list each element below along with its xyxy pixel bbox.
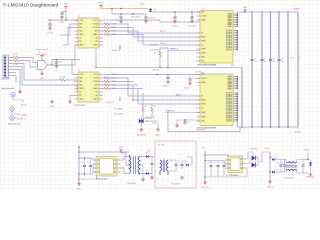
wire xyxy=(120,157,129,161)
wire xyxy=(52,45,78,65)
wire xyxy=(152,123,158,128)
svg-text:SOURCE: SOURCE xyxy=(226,115,232,117)
svg-text:C?: C? xyxy=(171,161,173,163)
wire xyxy=(160,48,168,67)
net label xyxy=(160,30,166,33)
svg-text:C? 0.1uF: C? 0.1uF xyxy=(149,18,156,20)
svg-text:C? 0.1uF: C? 0.1uF xyxy=(47,33,54,35)
red text xyxy=(196,129,206,131)
red text xyxy=(153,69,160,71)
resistor RN2D xyxy=(103,87,144,90)
wire (rail) xyxy=(204,151,205,182)
pins U5 right drain group xyxy=(227,75,237,90)
wire xyxy=(12,76,17,84)
wire xyxy=(186,157,192,165)
ground xyxy=(155,128,161,137)
sheet background xyxy=(0,0,320,191)
wire xyxy=(177,119,200,120)
wire xyxy=(148,157,152,174)
wire xyxy=(120,168,129,174)
wire (orange net) xyxy=(101,8,148,10)
svg-text:750313638: 750313638 xyxy=(127,183,136,185)
wire (drain bus) xyxy=(237,12,238,27)
svg-text:40.9k 250k: 40.9k 250k xyxy=(114,114,123,116)
red text RN_DNI_A xyxy=(132,16,142,19)
zener diode D1 xyxy=(149,9,156,12)
svg-text:RN_NC_A: RN_NC_A xyxy=(112,49,121,52)
svg-text:C?: C? xyxy=(264,59,266,61)
svg-text:VDD: VDD xyxy=(243,7,248,9)
GaN power IC U3 xyxy=(197,9,233,67)
svg-text:0.1uF: 0.1uF xyxy=(59,62,63,64)
wire xyxy=(121,152,129,165)
svg-text:VNEG: VNEG xyxy=(22,114,27,116)
transformer T3 xyxy=(283,162,297,180)
capacitor C8 xyxy=(260,58,267,63)
svg-text:RN_GND_B: RN_GND_B xyxy=(137,135,146,137)
svg-text:U? TPS7A4001: U? TPS7A4001 xyxy=(226,174,238,177)
power flag VDD xyxy=(64,4,69,9)
schottky diode D3 xyxy=(146,153,148,158)
svg-text:SPARE_B: SPARE_B xyxy=(166,109,175,112)
ground PGND xyxy=(295,127,301,134)
wire xyxy=(258,152,270,162)
pins J1 xyxy=(9,58,12,76)
svg-text:VCC2: VCC2 xyxy=(94,74,98,76)
svg-text:VNEG: VNEG xyxy=(201,53,206,55)
ground xyxy=(50,100,54,108)
capacitor C7 xyxy=(250,58,257,63)
port symbol P1 xyxy=(11,92,28,106)
wire xyxy=(297,160,303,164)
svg-text:RN_NC_B: RN_NC_B xyxy=(106,102,115,104)
pins U4 left xyxy=(75,75,79,100)
svg-text:GND2: GND2 xyxy=(93,99,98,101)
capacitor C6 xyxy=(189,12,196,28)
wire xyxy=(168,113,240,132)
wire (vertical) xyxy=(297,12,299,127)
pins U6 left xyxy=(93,160,96,172)
resistor R6 xyxy=(142,106,147,113)
svg-text:SOURCE: SOURCE xyxy=(226,110,232,112)
resistor RN1C xyxy=(103,30,201,41)
svg-text:EN1: EN1 xyxy=(79,31,82,33)
svg-text:C?: C? xyxy=(55,70,57,72)
svg-text:C?: C? xyxy=(208,162,210,164)
svg-text:SOURCE: SOURCE xyxy=(226,100,232,102)
capacitor C1 xyxy=(60,11,66,15)
svg-text:A_SRC_1: A_SRC_1 xyxy=(18,117,26,120)
resistor RN1A xyxy=(103,23,201,33)
power flag VDD3 xyxy=(243,7,248,12)
wire xyxy=(50,59,81,66)
wire (rail) xyxy=(269,152,270,180)
resistor R2 xyxy=(154,48,161,67)
capacitor C10 xyxy=(55,60,63,65)
wire xyxy=(205,155,228,158)
LDO U7 xyxy=(226,156,243,177)
svg-text:C?: C? xyxy=(178,161,180,163)
svg-text:GND1: GND1 xyxy=(79,34,84,36)
red text +5V xyxy=(202,148,206,150)
capacitor C13 xyxy=(183,120,189,124)
svg-text:C? C?: C? C? xyxy=(290,58,295,60)
wire (source bus) xyxy=(237,30,238,51)
pins U5 left xyxy=(197,75,201,122)
net label DRAIN xyxy=(293,8,300,11)
wire xyxy=(128,78,200,96)
wire xyxy=(236,121,238,127)
wire xyxy=(151,11,201,12)
svg-text:SOURCE: SOURCE xyxy=(226,42,232,44)
resistor RN2B xyxy=(103,80,134,83)
net label SPARE xyxy=(168,48,200,51)
svg-text:U?: U? xyxy=(38,52,40,54)
svg-text:RN_A_1: RN_A_1 xyxy=(21,103,27,106)
svg-text:C?: C? xyxy=(221,162,223,164)
svg-text:TI LMG3410 Daughtercard: TI LMG3410 Daughtercard xyxy=(3,3,59,8)
svg-text:SOURCE: SOURCE xyxy=(226,48,232,50)
wire xyxy=(307,153,308,161)
svg-text:INB_B: INB_B xyxy=(176,94,182,96)
svg-text:C? 0.1uF: C? 0.1uF xyxy=(189,26,196,28)
svg-text:LMG3410R070RWHT: LMG3410R070RWHT xyxy=(197,65,217,67)
resistor R3 xyxy=(13,54,19,59)
wire xyxy=(165,112,200,114)
wire (U5 right bus) xyxy=(237,76,238,90)
ground xyxy=(137,128,146,137)
port symbol P3 xyxy=(10,116,25,121)
wire xyxy=(297,168,303,173)
svg-text:VDD_B: VDD_B xyxy=(184,88,191,90)
svg-text:+6V_A: +6V_A xyxy=(264,147,270,150)
wire (vertical) xyxy=(287,12,289,127)
capacitor C9 xyxy=(269,58,276,63)
ground xyxy=(201,181,209,189)
net label xyxy=(176,94,182,96)
wire (U5 source bus) xyxy=(237,92,238,121)
svg-text:R? 0Ω: R? 0Ω xyxy=(13,64,18,66)
wire xyxy=(303,160,308,174)
svg-text:C?: C? xyxy=(299,58,301,60)
net label xyxy=(106,102,115,104)
svg-text:0.1u: 0.1u xyxy=(254,61,257,63)
svg-text:R?: R? xyxy=(154,53,156,55)
svg-text:C?: C? xyxy=(277,163,279,165)
pin U2 gnd xyxy=(41,70,43,73)
wire xyxy=(12,70,21,91)
net label xyxy=(290,58,295,60)
svg-text:C?: C? xyxy=(254,59,256,61)
svg-text:0.1u: 0.1u xyxy=(273,61,276,63)
svg-text:SOURCE: SOURCE xyxy=(226,46,232,48)
net label SPARE_B xyxy=(166,109,175,112)
svg-text:+12V_A: +12V_A xyxy=(303,149,310,152)
capacitor C3 xyxy=(112,13,146,21)
wire xyxy=(168,160,176,163)
ground xyxy=(68,100,72,103)
svg-text:SOURCE: SOURCE xyxy=(226,117,232,119)
svg-text:SOURCE: SOURCE xyxy=(226,98,232,100)
wire xyxy=(70,96,75,101)
svg-text:D?: D? xyxy=(146,170,148,172)
pins U3 right source group xyxy=(226,30,237,51)
red text xyxy=(172,184,181,186)
ground xyxy=(267,180,273,189)
capacitor C17 xyxy=(171,161,178,168)
wire xyxy=(79,157,93,159)
ground xyxy=(175,120,179,127)
ground xyxy=(119,20,123,23)
pins U3 right drain group xyxy=(227,13,237,28)
red text +5V_ISO xyxy=(157,145,165,147)
svg-text:EN2: EN2 xyxy=(95,31,98,33)
pins U4 right xyxy=(99,75,103,100)
ground xyxy=(60,16,65,24)
svg-text:SOURCE: SOURCE xyxy=(226,34,232,36)
svg-text:EN1: EN1 xyxy=(79,85,82,87)
svg-text:SOURCE: SOURCE xyxy=(226,93,232,95)
wire xyxy=(143,113,152,118)
wire xyxy=(79,172,97,179)
svg-text:SOURCE: SOURCE xyxy=(226,32,232,34)
svg-text:OUTB: OUTB xyxy=(93,81,97,83)
svg-text:U?: U? xyxy=(202,9,204,11)
pin U2 vcc xyxy=(41,58,43,61)
svg-text:VCC2: VCC2 xyxy=(94,20,98,22)
wire xyxy=(252,152,254,156)
svg-text:VNEG: VNEG xyxy=(201,117,206,119)
svg-text:TEMP: TEMP xyxy=(201,49,205,51)
red text xyxy=(264,147,270,150)
wire xyxy=(12,64,61,81)
svg-text:7.4k 1MHz: 7.4k 1MHz xyxy=(114,109,123,111)
svg-text:SN6501DBVR: SN6501DBVR xyxy=(96,179,108,181)
wire (vertical) xyxy=(278,12,280,127)
pins U7 right xyxy=(243,159,246,168)
svg-text:SOURCE: SOURCE xyxy=(226,96,232,98)
resistor R5 xyxy=(60,77,66,81)
svg-text:RT_DNI_B: RT_DNI_B xyxy=(172,184,181,186)
capacitor C? 218 xyxy=(215,161,220,178)
svg-text:PGND: PGND xyxy=(295,132,301,134)
wire xyxy=(12,72,17,74)
net label xyxy=(299,58,301,60)
resistor R7 xyxy=(151,104,156,113)
svg-text:GND2: GND2 xyxy=(93,88,98,90)
wire xyxy=(63,28,75,46)
annotation xyxy=(36,48,48,51)
wire xyxy=(237,11,298,12)
DNI region box xyxy=(155,141,196,188)
pins U7 left xyxy=(225,160,228,168)
svg-text:R? 10k: R? 10k xyxy=(60,77,66,79)
wire xyxy=(246,158,251,164)
capacitor C23 xyxy=(299,163,305,168)
annotation xyxy=(114,109,123,116)
digital isolator U1 xyxy=(78,16,99,48)
svg-text:Input Connector: Input Connector xyxy=(2,87,15,90)
net label xyxy=(160,42,166,45)
svg-text:SOURCE: SOURCE xyxy=(226,105,232,107)
wire xyxy=(255,158,258,165)
red text xyxy=(250,149,258,151)
wire xyxy=(93,164,96,174)
transformer T2 xyxy=(157,160,168,182)
svg-text:EN2: EN2 xyxy=(95,85,98,87)
pins U1 left xyxy=(75,21,79,46)
capacitor C5 xyxy=(172,12,178,28)
svg-text:+5V_ISO: +5V_ISO xyxy=(157,145,165,147)
svg-text:9k 500Hz: 9k 500Hz xyxy=(150,45,158,47)
pins U1 right xyxy=(99,21,103,46)
svg-text:U?: U? xyxy=(202,72,204,74)
resistor RN2C xyxy=(103,84,139,87)
wire (left rail) xyxy=(78,147,79,182)
svg-text:BCS-108-L: BCS-108-L xyxy=(2,79,11,81)
wire xyxy=(12,58,38,63)
schottky diode D4 xyxy=(146,170,148,175)
svg-text:VNEG: VNEG xyxy=(201,82,206,84)
svg-text:C?: C? xyxy=(188,122,190,124)
resistor R4 xyxy=(13,59,19,65)
wire xyxy=(225,161,228,165)
wire xyxy=(152,156,155,158)
capacitor C15 xyxy=(84,157,92,174)
capacitor C? 211 xyxy=(208,161,213,178)
ground xyxy=(40,72,44,80)
power flag VDD4 xyxy=(119,147,124,152)
red text xyxy=(196,70,202,73)
svg-text:VNEG: VNEG xyxy=(201,20,206,22)
red text xyxy=(306,176,314,179)
wire xyxy=(140,156,146,158)
svg-text:SOURCE: SOURCE xyxy=(226,41,232,43)
svg-text:9.9k 250Hz: 9.9k 250Hz xyxy=(150,50,159,52)
wire xyxy=(168,167,176,171)
pins U3 left xyxy=(197,12,201,61)
zener diode D8 xyxy=(309,160,312,174)
net label xyxy=(140,3,145,6)
capacitor C18 xyxy=(178,161,184,170)
wire xyxy=(93,158,96,160)
annotation xyxy=(2,87,15,90)
GaN power IC U5 xyxy=(197,72,233,129)
svg-text:VDD_ISO: VDD_ISO xyxy=(250,149,258,151)
svg-text:D?: D? xyxy=(154,10,156,12)
svg-text:VNEG_A: VNEG_A xyxy=(306,176,314,179)
svg-text:INB: INB xyxy=(79,27,82,29)
wire xyxy=(79,173,93,175)
svg-text:SOURCE: SOURCE xyxy=(226,101,232,103)
svg-text:U?: U? xyxy=(78,16,80,18)
svg-text:SOURCE: SOURCE xyxy=(226,119,232,121)
wire xyxy=(281,160,286,173)
resistor RN1B xyxy=(103,26,201,37)
svg-text:VCC1: VCC1 xyxy=(79,74,83,76)
annotation xyxy=(150,45,159,52)
svg-text:SOURCE: SOURCE xyxy=(226,121,232,123)
wire xyxy=(65,9,67,21)
wire xyxy=(238,126,298,127)
svg-text:RN_DNI: RN_DNI xyxy=(153,69,160,71)
svg-text:INB: INB xyxy=(79,81,82,83)
svg-text:TEMP: TEMP xyxy=(201,112,205,114)
svg-text:GND_ISO: GND_ISO xyxy=(201,187,209,189)
schottky diode D6 xyxy=(270,157,278,161)
transformer driver U6 xyxy=(96,157,117,181)
capacitor C? 224 xyxy=(221,161,226,178)
wire xyxy=(205,160,224,162)
resistor RN2A xyxy=(103,77,129,80)
power flag VCC gate xyxy=(40,55,44,57)
title text xyxy=(3,3,59,8)
wire xyxy=(246,168,248,177)
svg-text:SOURCE: SOURCE xyxy=(226,114,232,116)
wire xyxy=(112,44,121,76)
svg-text:SOURCE: SOURCE xyxy=(226,108,232,110)
svg-text:C?: C? xyxy=(87,162,89,164)
svg-text:do not install R?: do not install R? xyxy=(36,48,48,51)
wire xyxy=(103,20,200,22)
capacitor C14 xyxy=(81,158,86,174)
svg-text:C?: C? xyxy=(273,59,275,61)
svg-text:R? 0Ω: R? 0Ω xyxy=(13,54,18,56)
wire xyxy=(111,9,113,15)
svg-text:VDD2: VDD2 xyxy=(98,3,103,5)
svg-text:RN_DNI_A: RN_DNI_A xyxy=(132,16,142,19)
svg-text:SOURCE: SOURCE xyxy=(226,30,232,32)
port symbol P2 xyxy=(10,107,28,117)
svg-text:SOURCE: SOURCE xyxy=(226,94,232,96)
capacitor C16 xyxy=(147,151,154,167)
wire xyxy=(78,146,129,152)
wire xyxy=(60,24,75,35)
ground xyxy=(47,27,54,35)
svg-text:C?: C? xyxy=(281,59,283,61)
wire xyxy=(12,67,44,86)
wire xyxy=(43,85,77,91)
ground xyxy=(55,65,59,73)
svg-text:C? 1uF: C? 1uF xyxy=(172,26,178,28)
svg-text:0.1u: 0.1u xyxy=(281,61,284,63)
wire xyxy=(140,173,146,175)
ground xyxy=(309,173,313,176)
capacitor C12 xyxy=(184,75,198,90)
capacitor C10 xyxy=(277,58,284,63)
capacitor C11 xyxy=(163,75,170,88)
wire xyxy=(103,74,200,75)
svg-text:R?: R? xyxy=(145,106,147,108)
red text +12V_ISO xyxy=(303,149,310,152)
wire xyxy=(48,19,78,20)
svg-text:SOURCE: SOURCE xyxy=(226,103,232,105)
wire (vertical) xyxy=(251,12,253,127)
schottky diode D5 xyxy=(182,161,188,166)
svg-text:GND1: GND1 xyxy=(79,99,84,101)
wire xyxy=(142,93,144,108)
capacitor C2 xyxy=(48,20,51,27)
digital isolator U4 xyxy=(74,70,99,107)
svg-text:0.1u: 0.1u xyxy=(264,61,267,63)
wire (vertical) xyxy=(270,12,272,127)
capacitor C22b xyxy=(283,160,286,173)
TVS diode D2 xyxy=(139,118,159,124)
svg-text:C?: C? xyxy=(81,162,83,164)
ground xyxy=(141,178,145,181)
svg-text:SOURCE: SOURCE xyxy=(226,35,232,37)
svg-text:DRAIN: DRAIN xyxy=(293,8,300,11)
